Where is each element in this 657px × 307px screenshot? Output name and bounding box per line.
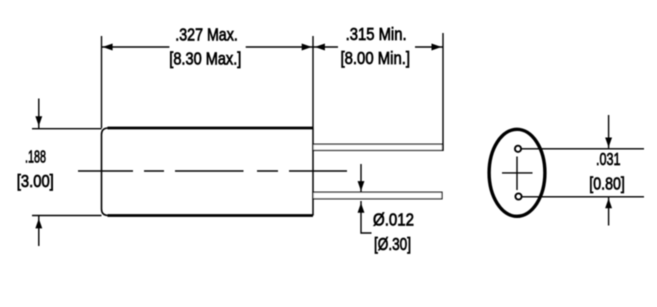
centerline segment 4 — [257, 170, 278, 172]
svg-text:[3.00]: [3.00] — [17, 171, 54, 191]
centerline segment 5 — [289, 170, 347, 172]
arrowhead .315 right — [432, 44, 440, 49]
svg-text:.188: .188 — [25, 147, 46, 167]
centerline segment 1 — [78, 170, 133, 172]
svg-text:[8.00 Min.]: [8.00 Min.] — [341, 48, 411, 68]
crystal body left edge — [102, 128, 108, 216]
arrowhead lead dia down — [358, 182, 363, 190]
dimension line .327 right segment — [246, 46, 313, 48]
bottom lead — [313, 192, 442, 199]
arrowhead .031 up — [606, 200, 611, 208]
extension line top of dim .188 — [32, 128, 102, 130]
dim .188 bottom arrow line — [38, 216, 40, 246]
arrowhead .188 bottom — [36, 220, 41, 228]
dimension line .315 left segment — [313, 46, 338, 48]
arrowhead lead dia up — [358, 205, 363, 213]
pin 2 line — [522, 196, 644, 198]
arrowhead .327 right — [302, 44, 310, 49]
centerline segment 2 — [144, 170, 164, 172]
dim .031 top arrow line — [608, 115, 610, 148]
centerline segment 3 — [175, 170, 244, 172]
pin 1 circle — [515, 146, 521, 152]
top lead — [313, 144, 443, 150]
svg-text:[8.30 Max.]: [8.30 Max.] — [169, 48, 241, 68]
arrowhead .188 top — [36, 117, 41, 125]
pin 1 line — [522, 148, 645, 150]
svg-text:.031: .031 — [596, 149, 621, 169]
pin 2 circle — [515, 193, 521, 199]
dim .188 top arrow line — [38, 99, 40, 129]
extension line left of dim .327 — [101, 36, 103, 128]
extension line shared mid (body right edge up) — [312, 36, 314, 128]
crystal body outline — [108, 128, 314, 216]
dimension line .315 right segment — [415, 46, 443, 48]
extension line bottom of dim .188 — [32, 215, 102, 217]
svg-text:[0.80]: [0.80] — [589, 173, 625, 193]
crosshair horizontal — [502, 172, 533, 174]
dim .031 bottom arrow line — [608, 197, 610, 225]
svg-text:Ø.012: Ø.012 — [373, 210, 414, 230]
crosshair vertical — [516, 157, 518, 191]
dim lead dia upper arrow line — [360, 164, 362, 192]
dim lead dia lower arrow line + leader — [361, 201, 372, 233]
svg-text:.327 Max.: .327 Max. — [175, 24, 238, 44]
arrowhead .315 left — [317, 44, 325, 49]
extension line right of dim .315 — [442, 33, 444, 151]
end view can outline — [489, 129, 545, 216]
svg-text:.315 Min.: .315 Min. — [346, 24, 407, 44]
dimension line .327 left segment — [102, 46, 170, 48]
arrowhead .327 left — [105, 44, 113, 49]
crystal body right edge — [312, 128, 314, 216]
arrowhead .031 down — [606, 138, 611, 146]
svg-text:[Ø.30]: [Ø.30] — [374, 234, 411, 254]
